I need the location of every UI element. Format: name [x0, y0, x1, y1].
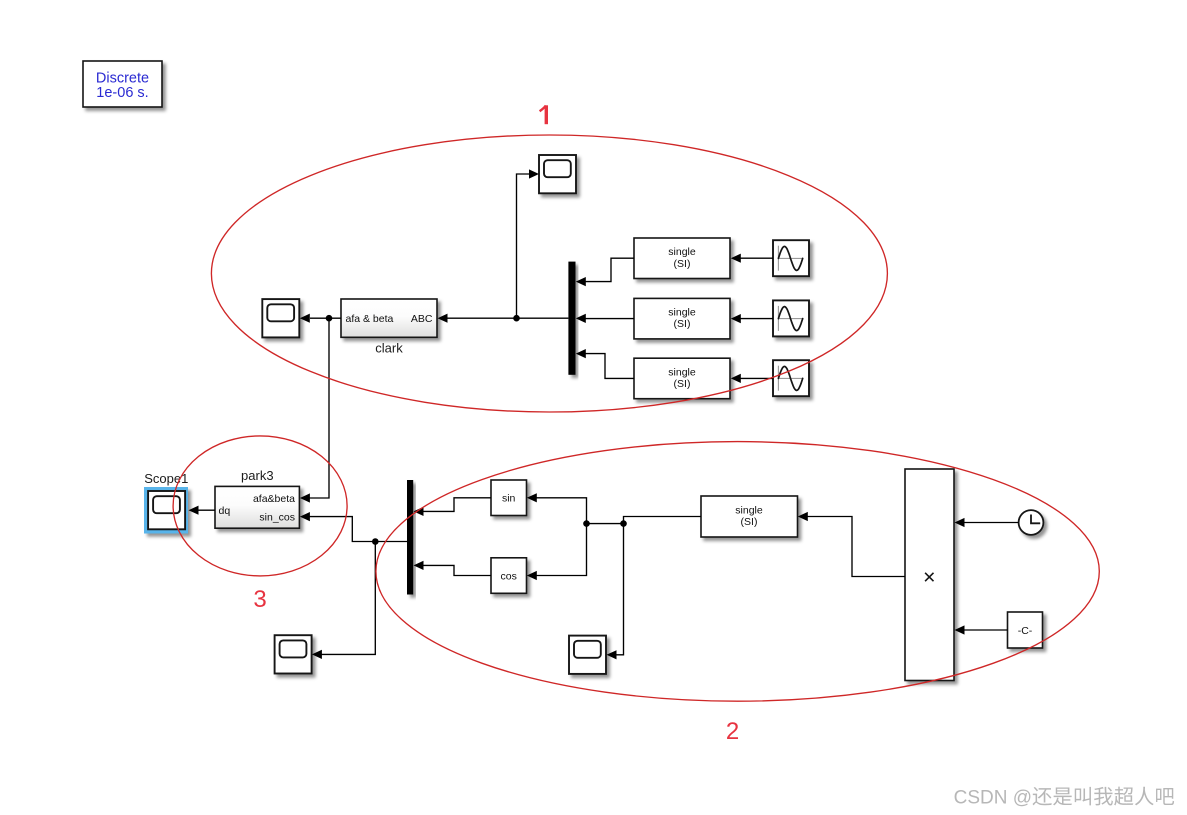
scope block (bottom right, flipped)	[569, 636, 606, 674]
data type conversion block single (SI) #3	[634, 358, 730, 399]
svg-text:sin: sin	[502, 493, 516, 505]
annotation ellipse 1	[211, 135, 887, 412]
annotation label 1	[540, 105, 547, 124]
svg-text:afa&beta: afa&beta	[253, 493, 295, 505]
svg-text:single: single	[668, 246, 696, 258]
subsystem block clark (afa & beta / ABC)	[341, 299, 437, 337]
svg-text:clark: clark	[375, 341, 403, 356]
mux Mux2 (2 inputs)	[407, 480, 413, 595]
junction node sin/cos feed	[583, 520, 590, 527]
sine wave source block #1	[773, 240, 809, 276]
clock source block	[1019, 510, 1044, 535]
scope block Scope1 (selected)	[148, 491, 185, 529]
wire sine3 to single3	[731, 374, 773, 383]
watermark CSDN @还是叫我超人吧	[954, 787, 1174, 809]
wire branch down to bottom-left scope	[312, 542, 375, 660]
svg-text:single: single	[668, 366, 696, 378]
junction node on theta wire	[620, 520, 627, 527]
svg-text:park3: park3	[241, 468, 274, 483]
svg-text:afa & beta: afa & beta	[346, 313, 394, 325]
wire clark afa&beta output to left scope	[300, 314, 341, 323]
wire feed to sin input	[527, 493, 587, 523]
product block (×)	[905, 469, 954, 681]
wire clock to product input 1	[955, 518, 1019, 527]
junction node on Mux1 output wire	[513, 315, 520, 322]
wire sine1 to single1	[731, 254, 773, 263]
junction node on clark output wire	[326, 315, 333, 322]
svg-text:cos: cos	[501, 570, 517, 582]
data type conversion block single (SI) #2	[634, 298, 730, 339]
wire feed to cos input	[527, 524, 587, 581]
svg-text:Scope1: Scope1	[144, 471, 188, 486]
svg-text:dq: dq	[219, 505, 231, 517]
subsystem block park3 (afa&beta / sin_cos / dq)	[215, 486, 299, 528]
annotation ellipse 2	[376, 442, 1099, 702]
svg-text:3: 3	[253, 586, 266, 613]
wire Mux2 output to park3 sin_cos input	[300, 512, 407, 542]
sine wave source block #2	[773, 300, 809, 336]
wire branch down to park3 afa&beta input	[300, 318, 329, 502]
data type conversion block single (SI) #4	[701, 496, 798, 537]
wire single2 to Mux1 input 2	[576, 314, 634, 323]
wire branch down to bottom-right scope	[607, 524, 624, 660]
svg-text:Discrete: Discrete	[96, 70, 149, 86]
wire Mux1 output to clark ABC input	[438, 314, 569, 323]
svg-text:single: single	[668, 307, 696, 319]
wire single3 to Mux1 input 3	[576, 349, 634, 378]
svg-text:single: single	[735, 505, 763, 517]
trigonometric function block cos	[491, 558, 527, 594]
junction node on Mux2 output wire	[372, 538, 379, 545]
svg-text:-C-: -C-	[1018, 625, 1033, 637]
selection highlight frame of Scope1	[144, 487, 188, 534]
svg-text:sin_cos: sin_cos	[259, 512, 295, 524]
data type conversion block single (SI) #1	[634, 238, 730, 279]
svg-text:(SI): (SI)	[674, 318, 691, 330]
trigonometric function block sin	[491, 480, 527, 516]
wire cos output to Mux2 input 2	[414, 561, 492, 576]
wire single1 to Mux1 input 1	[576, 258, 634, 286]
svg-text:1e-06 s.: 1e-06 s.	[96, 85, 148, 101]
annotation box: Discrete 1e-06 s.	[83, 61, 162, 107]
svg-text:ABC: ABC	[411, 313, 433, 325]
svg-text:(SI): (SI)	[741, 516, 758, 528]
wire sine2 to single2	[731, 314, 773, 323]
wire -C- to product input 2	[955, 625, 1008, 634]
mux Mux1 (3 inputs)	[568, 262, 575, 375]
wire sin output to Mux2 input 1	[414, 498, 492, 516]
wire product output to single4 input	[798, 512, 905, 577]
svg-text:CSDN @: CSDN @	[954, 788, 1032, 809]
wire branch up to top scope	[517, 169, 540, 318]
scope block (top, Scope)	[539, 155, 576, 193]
annotation ellipse 3	[173, 436, 347, 576]
scope block (bottom left, flipped)	[275, 635, 312, 673]
constant block -C-	[1008, 612, 1043, 648]
wire junction link	[587, 523, 624, 525]
svg-text:(SI): (SI)	[674, 378, 691, 390]
scope block (left of clark, flipped)	[262, 299, 299, 337]
svg-text:(SI): (SI)	[674, 258, 691, 270]
wire park3 dq output to Scope1	[189, 506, 216, 515]
wire single4 output down to junction	[624, 517, 702, 524]
svg-text:2: 2	[726, 718, 739, 745]
sine wave source block #3	[773, 360, 809, 396]
